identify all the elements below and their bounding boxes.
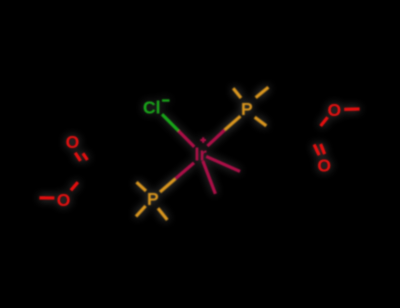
bond Cl-Ir, Ir half xyxy=(178,131,194,147)
bond Ir-P1, Ir half xyxy=(207,130,224,146)
right ester C=O double bond line 2, O half xyxy=(321,144,325,154)
minus charge on Cl xyxy=(162,99,170,101)
right ester C=O double bond line 1, O half xyxy=(314,145,319,156)
bond P1-CH3 upper-left, P1 half xyxy=(233,88,241,98)
bond P2-CH3 lower-right, P2 half xyxy=(158,208,167,220)
svg-text:P: P xyxy=(147,189,159,209)
svg-text:O: O xyxy=(317,156,331,176)
plus charge on Ir (horizontal arm) xyxy=(200,139,206,141)
bond P1-CH3 upper-right, P1 half xyxy=(256,87,269,97)
bond P2-CH2, P2 half xyxy=(137,182,147,191)
bond Ir-P2, Ir half xyxy=(175,163,194,179)
svg-text:P: P xyxy=(241,99,253,119)
bond Ir-CH3 right, Ir half xyxy=(206,156,240,171)
left ester C=O double bond line 2, O half xyxy=(83,153,88,160)
left ester O-C bond, O half xyxy=(71,182,78,190)
bond P2-CH3 lower-left, P2 half xyxy=(136,206,146,217)
svg-text:O: O xyxy=(66,132,80,152)
svg-text:Cl: Cl xyxy=(143,97,161,117)
right ester O-C bond, O half xyxy=(321,117,328,126)
svg-text:O: O xyxy=(57,190,71,210)
bond P1-CH2, P1 half xyxy=(255,117,267,126)
bond Ir-CH3 lower, Ir half xyxy=(203,161,216,194)
svg-text:Ir: Ir xyxy=(194,143,206,164)
bond Ir-P2, P2 half xyxy=(160,179,175,192)
right ester O-CH3 bond, O half xyxy=(344,107,359,111)
bond Cl-Ir, Cl half (green) xyxy=(162,114,178,131)
plus charge on Ir (vertical arm) xyxy=(202,137,204,143)
bond Ir-P1, P1 half xyxy=(225,116,241,130)
left ester C=O double bond line 1, O half xyxy=(75,153,80,161)
left ester O-CH3 bond, O half xyxy=(39,196,54,199)
svg-text:O: O xyxy=(327,100,341,120)
